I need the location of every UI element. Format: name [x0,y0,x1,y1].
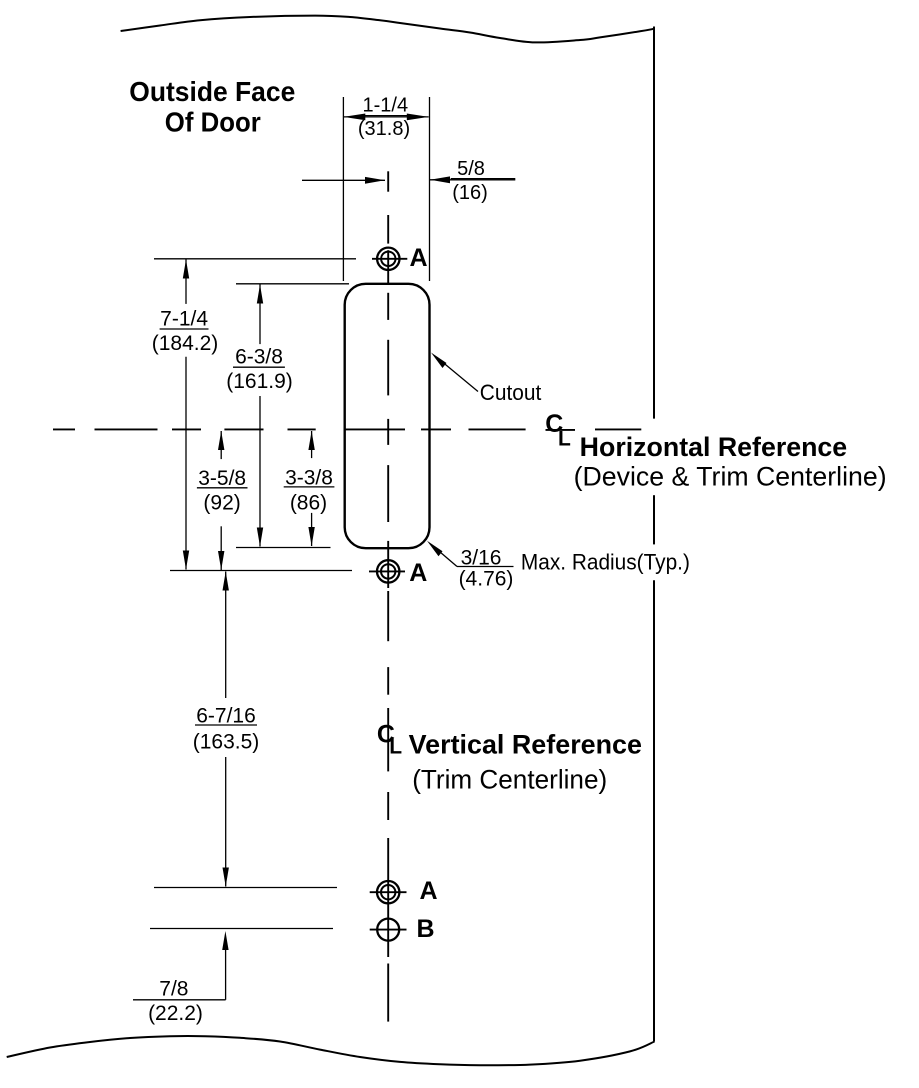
dimension 5/8 right arrow line [430,176,515,183]
svg-text:(Trim Centerline): (Trim Centerline) [412,765,607,795]
svg-text:(163.5): (163.5) [193,730,260,753]
svg-text:L: L [389,736,402,759]
svg-text:(161.9): (161.9) [226,370,293,393]
hole A middle (mounting hole) [369,560,405,582]
extension line at cutout bottom level [236,547,331,549]
svg-text:Horizontal Reference: Horizontal Reference [580,432,848,462]
svg-text:6-3/8: 6-3/8 [235,346,283,369]
dimension 3-3/8 dimension line with arrows [308,431,314,546]
extension line at cutout top level [236,283,349,285]
svg-text:A: A [410,244,428,272]
dimension 1-1/4 dimension line with arrows [343,114,428,121]
door outline right edge (segment below Max Radius text) [653,580,655,1041]
svg-text:3-3/8: 3-3/8 [285,466,333,489]
dimension 6-3/8 dimension line with arrows [257,285,263,547]
door outline top wavy edge [121,16,655,43]
dimension 7/8 leader with arrow [133,931,229,1000]
svg-text:7-1/4: 7-1/4 [160,308,208,331]
svg-text:L: L [558,428,571,451]
centerline symbol CL horizontal [545,410,571,451]
svg-text:Vertical Reference: Vertical Reference [409,729,642,759]
hole A bottom (mounting hole) [370,881,407,903]
cutout leader arrow [431,353,478,392]
svg-text:3/16: 3/16 [461,546,502,569]
centerline symbol CL vertical [377,720,402,758]
dimension 6-3/8 label underline [233,366,285,368]
vertical reference centerline (dashed) [387,171,389,1021]
svg-text:(22.2): (22.2) [148,1002,203,1025]
dimension 1-1/4 extension line right [429,97,431,281]
extension line at hole B level [150,928,333,930]
3/16 max radius leader arrow [427,541,514,567]
svg-text:(92): (92) [203,491,240,514]
hole A top (mounting hole) [372,248,407,270]
dimension 1-1/4 label underline [362,115,410,117]
dimension 7-1/4 dimension line with arrows [183,260,189,570]
svg-text:(Device & Trim Centerline): (Device & Trim Centerline) [574,461,887,491]
dimension 3-5/8 dimension line with arrows [218,431,224,570]
dimension 6-7/16 label underline [195,724,257,726]
dimension 1-1/4 extension line left [342,97,344,281]
svg-text:1-1/4: 1-1/4 [363,95,409,117]
svg-text:Outside Face: Outside Face [129,76,295,107]
hole B (mounting hole) [370,919,407,941]
svg-text:A: A [409,559,427,587]
svg-text:(86): (86) [290,491,327,514]
horizontal reference centerline (dashed) [53,428,641,430]
svg-text:Cutout: Cutout [480,380,542,405]
dimension 5/8 label underline [451,178,516,180]
svg-text:Of Door: Of Door [165,107,261,138]
svg-text:(16): (16) [452,182,488,204]
svg-text:(31.8): (31.8) [358,118,410,140]
svg-text:3-5/8: 3-5/8 [198,467,246,490]
svg-text:B: B [417,915,435,943]
svg-text:(184.2): (184.2) [152,332,219,355]
svg-text:(4.76): (4.76) [459,568,514,591]
svg-text:5/8: 5/8 [457,158,485,180]
extension line at hole A top level [154,258,356,260]
door outline right edge (segment above Horizontal Reference text) [653,27,655,419]
extension line at hole A middle level [170,570,352,572]
dimension 5/8 left arrow line [302,177,385,184]
dimension 6-7/16 dimension line with arrows [223,572,229,887]
extension line at hole A bottom level [154,887,337,889]
dimension 3-3/8 label underline [284,486,335,488]
svg-text:6-7/16: 6-7/16 [196,704,256,727]
svg-text:7/8: 7/8 [159,977,188,1000]
door outline right edge (segment between text blocks) [653,495,655,544]
cutout rounded rectangle [345,284,430,548]
door outline bottom wavy edge [7,1036,655,1065]
dimension 3-5/8 label underline [197,487,248,489]
dimension 7-1/4 label underline [160,328,209,330]
svg-text:A: A [420,877,438,905]
svg-text:Max. Radius(Typ.): Max. Radius(Typ.) [521,550,690,575]
